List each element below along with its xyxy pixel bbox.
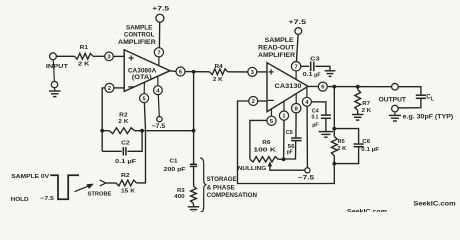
svg-text:7: 7 bbox=[157, 50, 160, 56]
svg-text:R7: R7 bbox=[362, 101, 370, 107]
svg-text:HOLD: HOLD bbox=[11, 197, 29, 203]
svg-text:R5: R5 bbox=[338, 139, 346, 145]
svg-text:2 K: 2 K bbox=[213, 77, 224, 83]
svg-text:15 K: 15 K bbox=[121, 188, 136, 194]
svg-text:400: 400 bbox=[174, 194, 185, 200]
svg-text:STORAGE: STORAGE bbox=[207, 177, 237, 183]
svg-text:R1: R1 bbox=[80, 45, 89, 51]
svg-text:2 K: 2 K bbox=[118, 119, 129, 125]
svg-text:2: 2 bbox=[108, 86, 111, 92]
svg-text:C1: C1 bbox=[170, 158, 179, 164]
svg-text:6: 6 bbox=[179, 70, 182, 76]
svg-text:200 pF: 200 pF bbox=[164, 167, 186, 173]
svg-text:+7.5: +7.5 bbox=[152, 5, 170, 12]
svg-text:3: 3 bbox=[251, 70, 254, 76]
svg-text:AMPLIFIER: AMPLIFIER bbox=[258, 53, 296, 59]
svg-text:SeekIC.com: SeekIC.com bbox=[413, 200, 456, 207]
svg-text:(OTA): (OTA) bbox=[132, 75, 152, 81]
svg-text:3: 3 bbox=[107, 55, 110, 61]
svg-text:8: 8 bbox=[295, 106, 298, 112]
svg-text:6: 6 bbox=[321, 85, 324, 91]
svg-text:C5: C5 bbox=[286, 130, 293, 136]
svg-text:0.1: 0.1 bbox=[303, 72, 314, 78]
svg-text:L: L bbox=[431, 96, 434, 102]
svg-text:−7.5: −7.5 bbox=[40, 196, 54, 202]
svg-text:STROBE: STROBE bbox=[88, 192, 112, 198]
svg-text:5: 5 bbox=[143, 96, 146, 102]
svg-text:R6: R6 bbox=[262, 140, 271, 146]
svg-text:R2: R2 bbox=[121, 173, 130, 179]
svg-text:SAMPLE: SAMPLE bbox=[126, 25, 152, 31]
svg-text:CONTROL: CONTROL bbox=[124, 33, 155, 39]
svg-text:CA3130: CA3130 bbox=[275, 84, 303, 90]
svg-text:READ-OUT: READ-OUT bbox=[258, 46, 295, 52]
svg-text:0.1 µF: 0.1 µF bbox=[361, 147, 379, 153]
svg-text:e.g. 30pF (TYP): e.g. 30pF (TYP) bbox=[403, 115, 454, 121]
svg-text:2 K: 2 K bbox=[362, 108, 372, 114]
svg-text:2: 2 bbox=[252, 99, 255, 105]
svg-text:SAMPLE 0V: SAMPLE 0V bbox=[11, 174, 49, 180]
svg-text:+7.5: +7.5 bbox=[288, 19, 307, 26]
svg-text:R2: R2 bbox=[119, 112, 128, 118]
svg-text:pF: pF bbox=[287, 149, 293, 155]
svg-text:COMPENSATION: COMPENSATION bbox=[207, 193, 257, 199]
svg-text:C3: C3 bbox=[310, 56, 320, 62]
svg-text:SeekIC.com: SeekIC.com bbox=[347, 209, 388, 212]
svg-text:µF: µF bbox=[314, 73, 321, 79]
svg-text:0.1 µF: 0.1 µF bbox=[115, 159, 137, 165]
svg-text:7: 7 bbox=[295, 64, 298, 70]
svg-text:−7.5: −7.5 bbox=[298, 175, 315, 182]
svg-text:R4: R4 bbox=[215, 64, 224, 70]
svg-text:5: 5 bbox=[270, 119, 273, 125]
svg-text:SAMPLE: SAMPLE bbox=[265, 38, 294, 44]
svg-text:2 K: 2 K bbox=[78, 61, 90, 67]
svg-text:0.1: 0.1 bbox=[312, 115, 319, 121]
svg-text:AMPLIFIER: AMPLIFIER bbox=[118, 40, 157, 46]
svg-text:INPUT: INPUT bbox=[46, 64, 69, 70]
svg-text:µF: µF bbox=[312, 123, 319, 129]
svg-text:NULLING: NULLING bbox=[238, 166, 267, 172]
svg-text:& PHASE: & PHASE bbox=[207, 186, 235, 192]
svg-text:2 K: 2 K bbox=[337, 146, 347, 152]
svg-text:C2: C2 bbox=[121, 141, 130, 147]
svg-text:C6: C6 bbox=[362, 139, 371, 145]
svg-text:−7.5: −7.5 bbox=[152, 123, 166, 130]
svg-text:100 K: 100 K bbox=[253, 148, 277, 154]
svg-text:CA3080A: CA3080A bbox=[128, 69, 157, 75]
svg-text:OUTPUT: OUTPUT bbox=[379, 97, 407, 103]
svg-text:1: 1 bbox=[282, 114, 285, 120]
